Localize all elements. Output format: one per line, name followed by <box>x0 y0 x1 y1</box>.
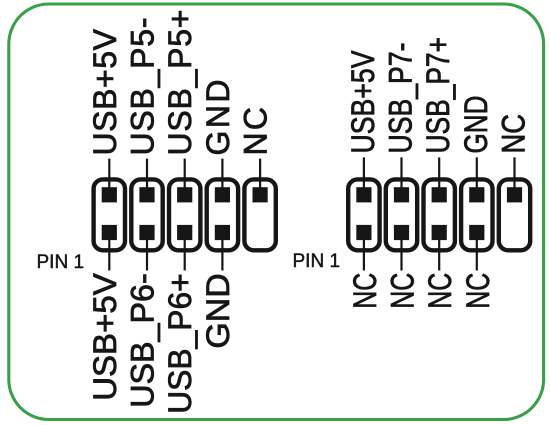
svg-text:USB+5V: USB+5V <box>87 28 123 155</box>
svg-text:PIN 1: PIN 1 <box>293 251 341 272</box>
svg-text:USB_P5+: USB_P5+ <box>162 9 198 155</box>
svg-text:USB_P7+: USB_P7+ <box>420 37 456 154</box>
svg-text:USB+5V: USB+5V <box>345 50 381 154</box>
svg-text:NC: NC <box>347 273 383 309</box>
svg-text:USB_P7-: USB_P7- <box>383 43 419 154</box>
svg-text:USB_P5-: USB_P5- <box>125 18 161 156</box>
svg-text:GND: GND <box>200 273 236 348</box>
svg-text:USB_P6+: USB_P6+ <box>162 273 198 414</box>
svg-text:NC: NC <box>422 273 458 309</box>
svg-text:USB_P6-: USB_P6- <box>125 273 161 408</box>
svg-text:NC: NC <box>460 273 496 309</box>
svg-text:NC: NC <box>385 273 421 309</box>
svg-text:GND: GND <box>458 96 494 154</box>
svg-text:GND: GND <box>200 80 236 156</box>
svg-text:USB+5V: USB+5V <box>87 273 123 401</box>
svg-text:NC: NC <box>496 114 532 154</box>
svg-text:PIN 1: PIN 1 <box>37 252 85 273</box>
